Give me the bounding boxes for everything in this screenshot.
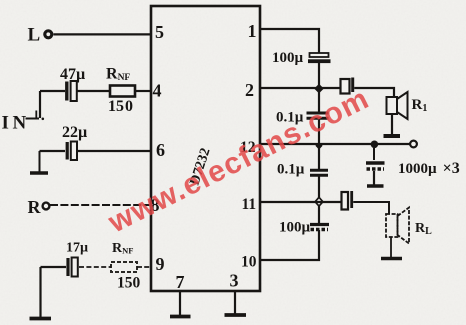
wire R to pin 8 xyxy=(50,204,151,206)
ground under speaker R1 xyxy=(391,114,393,135)
svg-text:10: 10 xyxy=(241,254,257,271)
svg-text:4: 4 xyxy=(153,81,162,101)
capacitor C9 bottom lead and bar xyxy=(373,171,375,185)
node IN vertical wire xyxy=(39,91,41,118)
svg-text:7: 7 xyxy=(176,272,185,292)
wire C10 to speaker RL xyxy=(353,202,389,214)
wire ground node to 17u xyxy=(41,266,67,268)
pin 3 lead xyxy=(234,291,236,314)
resistor RNF2 body dashed xyxy=(111,262,137,272)
svg-text:I: I xyxy=(2,113,9,134)
ground under speaker RL xyxy=(390,237,392,257)
IC U1 D7232 box xyxy=(151,6,260,291)
svg-text:6: 6 xyxy=(156,140,165,160)
rail C7 to pin10 line xyxy=(318,230,320,261)
capacitor C8 output top xyxy=(341,78,353,94)
speaker R1 xyxy=(387,92,408,119)
capacitor C1 47u xyxy=(67,81,77,101)
terminal R circle xyxy=(43,203,50,210)
ground under 22u xyxy=(39,151,41,172)
capacitor C5 0.1u xyxy=(307,113,329,118)
wire IN node to 47u xyxy=(40,90,65,92)
capacitor C9 1000u electrolytic xyxy=(366,163,385,169)
wire pin 2 xyxy=(260,87,341,89)
wire pin 12 xyxy=(260,143,410,145)
svg-text:1000µ×3: 1000µ×3 xyxy=(398,160,460,177)
capacitor C4 100u electrolytic xyxy=(308,53,331,63)
speaker RL xyxy=(386,208,409,244)
wire pin 1 to rail xyxy=(260,29,319,53)
capacitor C2 22u xyxy=(67,142,77,161)
wire L to pin 5 xyxy=(54,33,152,35)
svg-text:N: N xyxy=(13,113,27,134)
svg-text:2: 2 xyxy=(245,80,254,100)
wire RNF2 to pin 9 xyxy=(137,266,151,268)
svg-text:150: 150 xyxy=(108,98,133,115)
wire 17u to RNF2 xyxy=(79,266,111,268)
wire C8 to speaker R1 xyxy=(354,88,394,97)
wire pin 11 xyxy=(260,201,342,203)
wire ground to 22u xyxy=(40,150,66,152)
svg-text:3: 3 xyxy=(230,271,239,291)
capacitor C6 0.1u xyxy=(310,170,328,175)
junction circle pin11 rail xyxy=(315,197,323,206)
capacitor C7 100u electrolytic xyxy=(310,225,329,230)
svg-text:5: 5 xyxy=(155,22,164,42)
svg-text:150: 150 xyxy=(117,275,141,292)
svg-text:R: R xyxy=(28,197,42,217)
wire RNF1 to pin 4 xyxy=(135,90,151,92)
rail C4 to pin2 line xyxy=(318,63,320,113)
capacitor C10 output bottom xyxy=(342,191,352,210)
node IN tick xyxy=(26,118,40,120)
ground under 17u branch xyxy=(39,267,41,317)
wire 22u to pin 6 xyxy=(78,150,151,152)
svg-text:17µ: 17µ xyxy=(66,241,88,256)
terminal L circle xyxy=(45,31,52,38)
svg-text:100µ: 100µ xyxy=(279,220,311,236)
junction circle pin12 rail xyxy=(315,142,322,150)
capacitor C9 1000u lead xyxy=(373,148,375,160)
svg-text:22µ: 22µ xyxy=(62,124,87,141)
svg-text:0.1µ: 0.1µ xyxy=(277,162,305,178)
svg-text:9: 9 xyxy=(156,254,165,274)
terminal Vcc circle xyxy=(410,141,417,148)
resistor RNF1 body xyxy=(110,86,135,97)
ground pin 3 xyxy=(225,313,247,317)
capacitor C3 17u xyxy=(68,258,78,277)
pin 7 lead xyxy=(179,291,181,315)
rail C5 to pin12 line xyxy=(318,118,320,170)
svg-text:1: 1 xyxy=(248,21,257,41)
ground pin 7 xyxy=(170,315,191,319)
svg-text:L: L xyxy=(28,25,41,46)
wire 47u to RNF1 xyxy=(77,90,110,92)
svg-text:100µ: 100µ xyxy=(272,50,304,66)
junction dot pin12 big xyxy=(371,141,379,149)
svg-text:11: 11 xyxy=(242,196,257,213)
wire pin 10 xyxy=(260,259,320,261)
junction dot pin2 rail xyxy=(314,84,324,94)
rail C6 to pin11 line xyxy=(318,175,320,224)
